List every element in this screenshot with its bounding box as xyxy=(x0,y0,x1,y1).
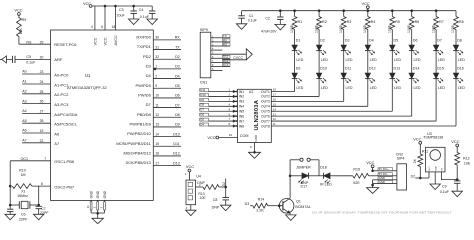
svg-text:VCC: VCC xyxy=(186,164,194,169)
svg-text:D6: D6 xyxy=(413,38,418,42)
svg-text:1K: 1K xyxy=(413,158,417,163)
wire U1 GND pin 21 xyxy=(90,202,92,210)
wire RESET net to U1 pin 29 xyxy=(19,43,51,45)
svg-text:16Mhz: 16Mhz xyxy=(17,194,28,198)
capacitor C2 47uF/10V xyxy=(279,11,281,17)
resistor R4 100E xyxy=(367,9,370,12)
wire U1 GND pin 5 xyxy=(104,202,106,210)
wire OSC2 net to U1 pin 8 xyxy=(32,185,51,187)
svg-text:6: 6 xyxy=(101,25,103,29)
svg-text:LED: LED xyxy=(370,58,377,62)
svg-text:A5/PC5/SCL: A5/PC5/SCL xyxy=(54,122,77,127)
svg-text:A4: A4 xyxy=(22,109,26,113)
svg-text:A3: A3 xyxy=(22,99,26,103)
svg-text:ATMEGA328TQPF-32: ATMEGA328TQPF-32 xyxy=(67,85,107,90)
svg-text:DNP: DNP xyxy=(212,206,220,210)
svg-text:D4: D4 xyxy=(146,73,152,78)
svg-text:IN7: IN7 xyxy=(239,119,244,123)
wire U1 pin 9 net D5 xyxy=(153,87,181,89)
wire ULN input IN6 net D6 xyxy=(209,115,238,117)
wire ULN input IN8 net D4 xyxy=(209,125,238,127)
svg-text:24: 24 xyxy=(40,80,44,84)
svg-text:15: 15 xyxy=(155,142,159,146)
svg-text:GND: GND xyxy=(96,190,100,198)
svg-text:VCC: VCC xyxy=(207,135,215,140)
wire LED column 1 to ULN OUT1 xyxy=(294,79,296,92)
svg-text:12: 12 xyxy=(273,117,277,121)
svg-text:LED: LED xyxy=(414,86,421,90)
svg-text:D13: D13 xyxy=(173,161,180,165)
svg-text:22PF: 22PF xyxy=(19,217,28,221)
svg-text:10uF: 10uF xyxy=(117,13,126,17)
svg-text:27: 27 xyxy=(40,109,44,113)
svg-text:SIP4: SIP4 xyxy=(397,156,405,160)
capacitor C9 0.1uF xyxy=(454,180,461,182)
svg-text:18: 18 xyxy=(273,88,277,92)
ground under Q1 xyxy=(286,215,297,221)
svg-text:JUMPER: JUMPER xyxy=(296,166,311,170)
wire LED column 6 to ULN OUT6 xyxy=(411,79,413,117)
svg-text:D2: D2 xyxy=(175,55,180,59)
svg-text:D5: D5 xyxy=(200,117,204,121)
wire LED column 5 to ULN OUT5 xyxy=(391,79,393,112)
wire analog input A7 to U1 pin 22 xyxy=(22,142,50,144)
svg-text:47uF/10V: 47uF/10V xyxy=(261,29,277,33)
svg-text:COM: COM xyxy=(240,134,249,138)
svg-text:OC1: OC1 xyxy=(21,157,28,161)
svg-text:C1: C1 xyxy=(249,14,254,18)
svg-text:12: 12 xyxy=(155,113,159,117)
ground under C3 xyxy=(128,19,139,25)
svg-text:C5: C5 xyxy=(26,55,31,59)
svg-text:D11: D11 xyxy=(200,88,205,92)
svg-text:PB0/D8: PB0/D8 xyxy=(137,112,152,117)
svg-text:D9: D9 xyxy=(296,66,301,70)
wire analog input A0 to U1 pin 23 xyxy=(22,73,50,75)
wire U1 pin 1 net D3 xyxy=(153,68,181,70)
wire U1 pin 2 net D4 xyxy=(153,78,181,80)
wire analog input A1 to U1 pin 24 xyxy=(22,83,50,85)
svg-text:A0: A0 xyxy=(22,70,26,74)
svg-text:LED: LED xyxy=(296,86,303,90)
svg-text:D10: D10 xyxy=(173,132,180,136)
svg-text:A0-PC0: A0-PC0 xyxy=(54,72,69,77)
wire ULN input IN1 net D11 xyxy=(209,91,238,93)
wire U1 pin 6 VCC xyxy=(104,6,106,30)
svg-text:U4: U4 xyxy=(196,175,201,179)
svg-text:26: 26 xyxy=(40,100,44,104)
wire U1 pin 13 net D9 xyxy=(153,126,181,128)
svg-text:MISO/PB4/D12: MISO/PB4/D12 xyxy=(123,151,151,156)
wire analog input A2 to U1 pin 25 xyxy=(22,93,50,95)
wire U1 pin 11 net D7 xyxy=(153,107,181,109)
svg-text:VCC: VCC xyxy=(413,137,421,142)
svg-text:17: 17 xyxy=(273,93,277,97)
wire GND bus under U1 xyxy=(91,212,104,214)
resistor R13 10E xyxy=(203,185,219,190)
wire U1 pin 16 net D12 xyxy=(153,155,181,157)
svg-text:LED: LED xyxy=(346,58,353,62)
resistor R2 100E xyxy=(318,9,321,12)
svg-text:OSC1-PB6: OSC1-PB6 xyxy=(54,159,75,164)
svg-text:PW/PB2/D10: PW/PB2/D10 xyxy=(127,131,151,136)
svg-text:VCC: VCC xyxy=(103,37,107,45)
svg-text:22: 22 xyxy=(40,139,44,143)
svg-text:D2: D2 xyxy=(222,182,226,186)
svg-text:D14: D14 xyxy=(413,66,420,70)
svg-text:D6: D6 xyxy=(175,94,180,98)
wire analog input A5 to U1 pin 28 xyxy=(22,122,50,124)
svg-text:10K: 10K xyxy=(19,28,23,35)
wire VCC rail top of U1 xyxy=(91,5,153,7)
svg-text:OUT7: OUT7 xyxy=(261,119,270,123)
svg-text:13: 13 xyxy=(155,123,159,127)
svg-text:D11: D11 xyxy=(173,142,179,146)
svg-text:D16: D16 xyxy=(457,66,464,70)
svg-text:SCK/PB5/D13: SCK/PB5/D13 xyxy=(125,160,151,165)
wire U4 pin 1 xyxy=(188,172,190,180)
svg-text:D7: D7 xyxy=(200,108,204,112)
wire U1 pin 15 net D11 xyxy=(153,145,181,147)
svg-text:D12: D12 xyxy=(369,66,376,70)
svg-text:16: 16 xyxy=(273,97,277,101)
svg-text:D6: D6 xyxy=(200,113,204,117)
svg-text:VCC: VCC xyxy=(362,1,370,6)
svg-text:PW/PB1/D9: PW/PB1/D9 xyxy=(129,122,151,127)
svg-text:100E: 100E xyxy=(431,24,435,33)
ground under C6 xyxy=(5,214,16,220)
wire ULN input IN2 net D10 xyxy=(209,95,238,97)
LED D17 DNP xyxy=(290,175,302,177)
ic U4 DNP IR receiver body xyxy=(186,180,196,205)
svg-text:C4: C4 xyxy=(139,8,144,12)
wire CN2 pin 1 net 5V DC+ xyxy=(378,168,393,171)
resistor R3 100E xyxy=(342,9,345,12)
svg-text:D2: D2 xyxy=(320,38,325,42)
svg-text:100E: 100E xyxy=(339,24,343,33)
svg-text:A3-PC3: A3-PC3 xyxy=(54,102,69,107)
svg-text:VCC: VCC xyxy=(451,139,459,144)
svg-text:14: 14 xyxy=(155,132,159,136)
wire LED column 7 to ULN OUT7 xyxy=(435,79,437,121)
svg-text:D17: D17 xyxy=(301,185,308,189)
svg-text:LED: LED xyxy=(394,58,401,62)
svg-text:2: 2 xyxy=(155,74,157,78)
wire U1 GND pin 3 xyxy=(97,202,99,210)
svg-text:9: 9 xyxy=(155,84,157,88)
wire U3 pin 1 OUT xyxy=(428,172,430,178)
svg-text:25: 25 xyxy=(40,90,44,94)
ground under U2 xyxy=(249,152,261,158)
svg-text:OUT5: OUT5 xyxy=(261,110,270,114)
wire R15 to CN2 xyxy=(369,175,378,177)
svg-text:SIP9: SIP9 xyxy=(200,28,208,32)
svg-text:100E: 100E xyxy=(290,24,294,33)
svg-text:D4: D4 xyxy=(175,74,180,78)
wire ULN input IN4 net D8 xyxy=(209,105,238,107)
svg-text:R11: R11 xyxy=(422,149,428,153)
svg-text:D9: D9 xyxy=(175,123,180,127)
svg-text:D8: D8 xyxy=(175,113,180,117)
svg-text:A4/PC4/SDA: A4/PC4/SDA xyxy=(54,112,77,117)
svg-text:D13: D13 xyxy=(394,66,401,70)
svg-text:A2-PC2: A2-PC2 xyxy=(54,92,69,97)
wire CN1 pin 8 xyxy=(211,66,223,68)
port CVCC arrow xyxy=(222,53,246,55)
wire VCC rail for LED matrix xyxy=(242,10,456,12)
svg-text:31: 31 xyxy=(155,45,159,49)
svg-text:A2: A2 xyxy=(22,90,26,94)
wire OSC2 vertical xyxy=(38,186,40,205)
svg-text:IN8: IN8 xyxy=(239,124,244,128)
svg-text:C7: C7 xyxy=(41,207,46,211)
wire ULN input IN5 net D7 xyxy=(209,110,238,112)
svg-text:A1: A1 xyxy=(22,80,26,84)
svg-text:LED: LED xyxy=(458,86,465,90)
svg-text:D4: D4 xyxy=(369,38,374,42)
wire CN2 pin 2 net 5V DC- xyxy=(378,173,393,176)
svg-text:OSC2-PB7: OSC2-PB7 xyxy=(54,184,75,189)
svg-text:28: 28 xyxy=(40,119,44,123)
svg-text:10E: 10E xyxy=(200,196,207,200)
svg-text:1M: 1M xyxy=(21,173,26,177)
svg-text:C3: C3 xyxy=(119,8,124,12)
resistor R6 100E xyxy=(410,9,413,12)
svg-text:D1: D1 xyxy=(296,38,301,42)
svg-text:D15: D15 xyxy=(437,66,444,70)
svg-text:R14: R14 xyxy=(258,198,265,202)
svg-text:GND: GND xyxy=(435,166,437,171)
svg-text:U2: U2 xyxy=(249,90,254,94)
svg-text:LED: LED xyxy=(458,58,465,62)
svg-text:R7: R7 xyxy=(439,20,444,24)
svg-text:R12: R12 xyxy=(463,157,470,161)
svg-text:OUT: OUT xyxy=(429,166,431,171)
svg-text:A5: A5 xyxy=(22,119,26,123)
svg-text:A7: A7 xyxy=(54,141,60,146)
svg-text:100E: 100E xyxy=(451,24,455,33)
svg-text:2.2K: 2.2K xyxy=(256,209,264,213)
svg-text:PW/PD5: PW/PD5 xyxy=(135,83,151,88)
svg-text:U1: U1 xyxy=(85,73,91,78)
svg-text:R10: R10 xyxy=(19,169,26,173)
svg-text:D3: D3 xyxy=(146,64,152,69)
svg-text:D8: D8 xyxy=(200,103,204,107)
capacitor C4 0.1uF xyxy=(151,6,153,11)
svg-text:Q1: Q1 xyxy=(296,200,301,204)
svg-text:LED: LED xyxy=(370,86,377,90)
svg-text:IN5: IN5 xyxy=(239,110,244,114)
wire U1 pin 17 net D13 xyxy=(153,165,181,167)
svg-text:10E: 10E xyxy=(464,162,471,166)
svg-text:RS: RS xyxy=(26,40,32,44)
wire net D2 stub up from R13 xyxy=(225,179,227,188)
ic U1 ATMEGA328TQPF-32 body xyxy=(51,30,154,200)
svg-text:D4: D4 xyxy=(200,122,204,126)
wire ARF to U1 pin 20 xyxy=(15,58,51,60)
svg-text:R2: R2 xyxy=(322,20,327,24)
svg-text:0.1uF: 0.1uF xyxy=(248,19,258,23)
svg-text:100E: 100E xyxy=(407,24,411,33)
wire CN1 pin 1 xyxy=(211,37,223,39)
svg-text:OUT4: OUT4 xyxy=(261,105,270,109)
svg-text:C8: C8 xyxy=(213,198,218,202)
svg-text:OUT1: OUT1 xyxy=(261,90,270,94)
svg-text:29: 29 xyxy=(40,40,44,44)
svg-text:R15: R15 xyxy=(353,168,360,172)
svg-text:D3: D3 xyxy=(245,202,250,206)
svg-text:10: 10 xyxy=(229,133,233,137)
wire U1 pin 18 AVCC xyxy=(115,6,117,30)
wire U1 pin 12 net D8 xyxy=(153,116,181,118)
svg-text:15: 15 xyxy=(273,102,277,106)
svg-text:R4: R4 xyxy=(371,20,376,24)
wire CN1 pin 5 xyxy=(211,53,223,55)
resistor R8 100E xyxy=(455,11,457,17)
resistor R11 1K xyxy=(419,144,421,154)
svg-text:4: 4 xyxy=(91,25,93,29)
svg-text:R9: R9 xyxy=(22,18,27,22)
wire U1 pin 14 net D10 xyxy=(153,136,181,138)
resistor R15 62E xyxy=(353,173,369,178)
svg-text:100E: 100E xyxy=(314,24,318,33)
capacitor C7 22PF xyxy=(38,205,40,206)
wire CN2 pin 3 net GND xyxy=(378,177,393,180)
wire U3 pin 2 GND to ground xyxy=(434,172,436,184)
wire LED column 2 to ULN OUT2 xyxy=(318,79,320,97)
svg-text:TSMP58138: TSMP58138 xyxy=(423,136,443,140)
svg-text:A6: A6 xyxy=(54,131,60,136)
wire analog input A3 to U1 pin 26 xyxy=(22,103,50,105)
svg-text:LED: LED xyxy=(321,58,328,62)
wire U1 pin 4 VCC xyxy=(94,6,96,30)
svg-text:100E: 100E xyxy=(363,24,367,33)
svg-text:D5: D5 xyxy=(175,84,180,88)
ic U2 ULN2803A body xyxy=(238,89,272,142)
capacitor C1 0.1uF xyxy=(241,11,243,16)
resistor R1 100E xyxy=(293,9,296,12)
svg-text:D7: D7 xyxy=(175,103,180,107)
wire LED column 4 to ULN OUT4 xyxy=(367,79,369,107)
svg-text:7: 7 xyxy=(44,157,46,161)
wire U4 pin 3 to ground xyxy=(190,205,192,211)
wire CN1 pin 6 xyxy=(211,57,223,59)
svg-text:18: 18 xyxy=(112,25,116,29)
jumper J1 xyxy=(289,160,291,176)
svg-text:LED: LED xyxy=(321,86,328,90)
svg-text:C9: C9 xyxy=(442,185,447,189)
wire ULN GND pin 9 xyxy=(254,143,256,153)
svg-text:GND: GND xyxy=(103,190,107,198)
svg-text:PW/D6: PW/D6 xyxy=(138,93,151,98)
port ARF input arrow xyxy=(2,56,7,63)
svg-text:R8: R8 xyxy=(459,20,464,24)
wire U1 pin 31 net TX xyxy=(153,49,181,51)
svg-text:D3: D3 xyxy=(345,38,350,42)
wire LED column 8 to ULN OUT8 xyxy=(455,79,457,126)
svg-text:13: 13 xyxy=(273,112,277,116)
ground under U3 xyxy=(430,184,441,190)
svg-text:17: 17 xyxy=(155,161,159,165)
wire U3 pin 3 VS xyxy=(440,172,442,180)
svg-text:C2: C2 xyxy=(265,16,270,20)
svg-text:R5: R5 xyxy=(395,20,400,24)
svg-text:GND: GND xyxy=(254,134,258,142)
resistor R10 1M xyxy=(12,184,32,189)
svg-text:TX: TX xyxy=(175,45,180,49)
svg-text:32: 32 xyxy=(155,55,159,59)
svg-text:RX: RX xyxy=(175,36,181,40)
svg-text:GND: GND xyxy=(89,190,93,198)
ground under CN2 gnd pins xyxy=(367,188,379,194)
svg-text:19: 19 xyxy=(40,129,44,133)
svg-text:23: 23 xyxy=(40,70,44,74)
capacitor C6 22PF xyxy=(9,205,11,209)
svg-text:LED: LED xyxy=(296,58,303,62)
svg-text:A7: A7 xyxy=(22,139,26,143)
svg-text:IR LED: IR LED xyxy=(320,183,332,187)
wire CN1 pin 7 xyxy=(211,61,223,63)
svg-text:0.1uF: 0.1uF xyxy=(140,15,150,19)
svg-text:C6: C6 xyxy=(21,213,26,217)
svg-text:MOSI/PW/PB3/D11: MOSI/PW/PB3/D11 xyxy=(116,141,151,146)
node chain junction left xyxy=(289,175,292,178)
svg-text:RESET-PC6: RESET-PC6 xyxy=(54,42,77,47)
svg-text:VCC: VCC xyxy=(93,37,97,45)
svg-text:LED: LED xyxy=(438,58,445,62)
wire U1 pin 32 net D2 xyxy=(153,58,181,60)
wire Q1 collector up xyxy=(289,176,291,198)
svg-text:11: 11 xyxy=(155,103,159,107)
svg-text:IN3: IN3 xyxy=(239,100,244,104)
svg-text:D1 IR SENSOR VISHAY TSMP58138: D1 IR SENSOR VISHAY TSMP58138 OR TSOP483… xyxy=(312,211,452,215)
transistor Q1 BC847AL xyxy=(279,199,294,214)
capacitor C3 10uF xyxy=(133,6,135,11)
svg-text:0.1uF: 0.1uF xyxy=(440,190,450,194)
svg-text:ARF: ARF xyxy=(54,57,63,62)
svg-text:0.1uF: 0.1uF xyxy=(26,61,36,65)
svg-text:62E: 62E xyxy=(353,181,360,185)
svg-text:LED: LED xyxy=(414,58,421,62)
wire analog input A4 to U1 pin 27 xyxy=(22,112,50,114)
svg-text:D7: D7 xyxy=(437,38,442,42)
svg-text:20: 20 xyxy=(40,55,44,59)
svg-text:A1-PC1: A1-PC1 xyxy=(54,82,69,87)
svg-text:LED: LED xyxy=(394,86,401,90)
wire OSC1 vertical xyxy=(9,161,11,205)
wire OSC1 net OC1 to U1 pin 7 xyxy=(10,160,50,162)
ground under C7 xyxy=(33,214,44,220)
svg-text:D7: D7 xyxy=(146,102,152,107)
svg-text:11: 11 xyxy=(273,122,276,126)
wire analog input A6 to U1 pin 19 xyxy=(22,132,50,134)
svg-text:VCC: VCC xyxy=(366,160,374,165)
svg-text:AVCC: AVCC xyxy=(114,35,118,46)
svg-text:CN1: CN1 xyxy=(200,80,207,84)
wire VCC to CN2 pin 1 xyxy=(373,170,378,172)
svg-text:OUT8: OUT8 xyxy=(261,124,270,128)
ground under C2 xyxy=(275,24,286,30)
svg-text:OUT6: OUT6 xyxy=(261,114,270,118)
ground under U4 xyxy=(186,210,197,216)
resistor R12 10E xyxy=(456,147,458,153)
svg-text:OUT3: OUT3 xyxy=(261,100,270,104)
svg-text:IN4: IN4 xyxy=(239,105,244,109)
svg-text:D5: D5 xyxy=(394,38,399,42)
svg-text:CVCC: CVCC xyxy=(233,56,243,60)
wire CN1 pin 4 xyxy=(211,49,223,51)
svg-text:D18: D18 xyxy=(320,165,327,169)
